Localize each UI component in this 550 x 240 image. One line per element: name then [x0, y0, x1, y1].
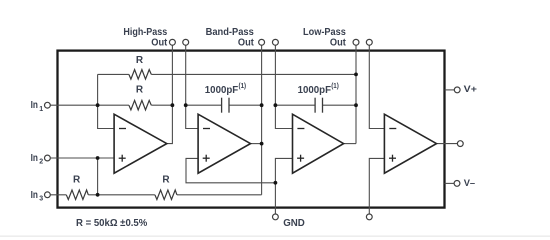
wire capacitor C2 right [323, 104, 357, 106]
resistor R lower feedback [129, 100, 151, 110]
wire In3 second resistor to BP node [177, 194, 262, 196]
pin GND [273, 214, 279, 220]
svg-text:R: R [162, 175, 170, 186]
svg-text:High-Pass: High-Pass [123, 27, 167, 38]
node LP / upper R [354, 73, 358, 77]
svg-text:3: 3 [39, 196, 43, 203]
svg-text:V+: V+ [464, 84, 478, 95]
node LP / C2 [354, 103, 358, 107]
svg-text:GND: GND [283, 218, 305, 229]
wire LP pin 2 vertical to A4 inverting input [369, 45, 384, 128]
pin Low-Pass Out 1 [353, 39, 359, 45]
pin A4 output [457, 141, 463, 147]
svg-text:Out: Out [238, 38, 255, 49]
wire A4 output to right pin [437, 143, 458, 145]
svg-text:In: In [31, 153, 38, 164]
svg-text:1000pF: 1000pF [205, 85, 238, 96]
node ground bus [274, 181, 278, 185]
node A2 inverting / C1 [184, 103, 188, 107]
node HP out on In1 line [171, 103, 175, 107]
wire In3 lead [50, 194, 66, 196]
pin In2 [45, 155, 51, 161]
svg-text:2: 2 [39, 159, 43, 166]
svg-text:In: In [31, 100, 38, 111]
pin Low-Pass Out 2 [366, 39, 372, 45]
svg-text:In: In [31, 190, 38, 201]
svg-text:1: 1 [39, 106, 43, 113]
wire In1 lead [50, 104, 97, 106]
pin High-Pass Out 1 [169, 39, 175, 45]
svg-text:R = 50kΩ ±0.5%: R = 50kΩ ±0.5% [76, 218, 147, 229]
wire A3 + input to GND pin [275, 158, 292, 214]
node In1/R junction [96, 103, 100, 107]
resistor R In3 first [66, 190, 88, 200]
wire V- stub [445, 182, 455, 184]
svg-text:V–: V– [464, 178, 475, 189]
wire HP pin 2 vertical to A2 inverting input [186, 45, 198, 128]
svg-text:Low-Pass: Low-Pass [303, 27, 346, 38]
wire A2 + input to ground bus [186, 158, 275, 182]
IC outline box [58, 51, 445, 208]
wire A3 output to LP node [344, 143, 356, 145]
wire upper feedback R to LP node [151, 73, 356, 75]
wire upper feedback R left [98, 73, 129, 75]
wire In2 to In3 vertical [97, 158, 99, 195]
wire A4 + input to bottom pin [369, 158, 384, 214]
node A3 inverting / C2 [274, 103, 278, 107]
pin V- [454, 181, 460, 187]
junction node dots [96, 73, 358, 197]
wire resistor to HP node [151, 104, 172, 106]
pin Band-Pass Out 2 [272, 39, 278, 45]
faint page rule at bottom [0, 235, 550, 237]
svg-text:Out: Out [151, 38, 168, 49]
wire vertical A1 inverting node [98, 74, 115, 128]
node A2 output [260, 142, 264, 146]
svg-text:Band-Pass: Band-Pass [206, 27, 255, 38]
capacitor C2 1000pF plates [315, 98, 322, 113]
op-amp A3 [293, 114, 344, 173]
node In3 junction [96, 193, 100, 197]
wire A2 output to BP node [251, 143, 262, 145]
svg-text:R: R [136, 85, 144, 96]
op-amp A1 [114, 114, 167, 173]
svg-text:(1): (1) [331, 83, 339, 90]
wire V+ stub [445, 89, 455, 91]
pin V+ [454, 87, 460, 93]
resistor R upper feedback [129, 70, 151, 80]
resistor R In3 second [155, 190, 177, 200]
svg-text:(1): (1) [239, 83, 247, 90]
pin In1 [45, 102, 51, 108]
wire capacitor C1 left [186, 104, 222, 106]
svg-text:R: R [136, 55, 144, 66]
wire LP pin 1 vertical [355, 45, 357, 143]
pin circles [45, 39, 464, 219]
node In2 junction [96, 156, 100, 160]
wire In3 between resistors [88, 194, 155, 196]
wire In1 to resistor R (lower feedback) [98, 104, 129, 106]
pin Band-Pass Out 1 [259, 39, 265, 45]
pin A4 + input [366, 214, 372, 220]
wire capacitor C2 left [275, 104, 315, 106]
capacitor C1 1000pF plates [222, 98, 229, 113]
svg-text:1000pF: 1000pF [298, 85, 331, 96]
svg-text:R: R [73, 175, 81, 186]
pin In3 [45, 192, 51, 198]
pin High-Pass Out 2 [183, 39, 189, 45]
op-amp A2 [198, 114, 250, 173]
wire BP pin 1 vertical [261, 45, 263, 195]
wire BP pin 2 vertical to A3 inverting input [275, 45, 292, 128]
wire In2 to A1 + input [50, 157, 114, 159]
wire capacitor C1 right [229, 104, 262, 106]
op-amp A4 [384, 114, 436, 173]
node BP out / C1 [260, 103, 264, 107]
svg-text:Out: Out [330, 38, 347, 49]
wire HP pin 1 vertical to A1 output [167, 45, 173, 143]
